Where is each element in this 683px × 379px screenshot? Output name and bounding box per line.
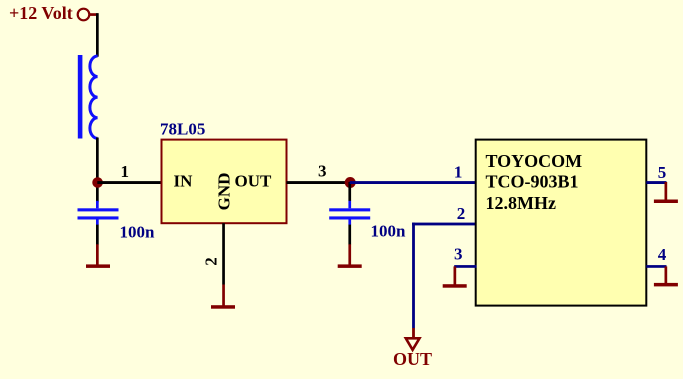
svg-text:1: 1 <box>454 162 463 181</box>
wire node A to U1 IN <box>97 181 162 184</box>
oscillator U2 body <box>476 140 647 306</box>
OUT arrow stub <box>412 328 415 338</box>
wire C2 to ground <box>348 225 351 245</box>
wire inductor to node A <box>96 138 99 203</box>
capacitor C2 bottom plate <box>329 216 370 219</box>
ground G1 <box>96 244 99 265</box>
inductor L1 winding <box>90 56 98 138</box>
svg-text:12.8MHz: 12.8MHz <box>486 193 556 213</box>
capacitor C1 lead stubs <box>96 201 99 209</box>
svg-text:2: 2 <box>202 257 221 266</box>
svg-text:78L05: 78L05 <box>160 119 205 138</box>
svg-text:IN: IN <box>174 172 194 191</box>
ground G4 at U2 pin 3 <box>454 266 457 285</box>
wire node B to C2 <box>348 182 351 201</box>
svg-text:OUT: OUT <box>235 172 273 191</box>
svg-text:+12 Volt: +12 Volt <box>9 3 73 23</box>
svg-text:1: 1 <box>121 162 130 181</box>
capacitor C1 bottom plate <box>78 216 119 219</box>
capacitor C2 lead stubs <box>348 201 351 209</box>
inductor L1 core bar <box>78 55 83 139</box>
svg-text:OUT: OUT <box>393 349 432 369</box>
net wire U2 pin 5 stub <box>646 181 666 184</box>
net wire pin 2 vertical to OUT <box>412 223 415 329</box>
junction node B <box>345 177 356 188</box>
ground G6 at U2 pin 4 <box>665 266 668 285</box>
wire stub from terminal <box>90 13 98 16</box>
svg-text:100n: 100n <box>120 223 156 242</box>
wire terminal to inductor <box>96 13 99 57</box>
svg-text:3: 3 <box>454 244 463 263</box>
OUT arrow head <box>406 338 420 350</box>
svg-text:2: 2 <box>457 204 466 223</box>
junction node A <box>92 177 103 188</box>
net wire U2 pin 3 stub <box>454 265 476 268</box>
svg-text:GND: GND <box>214 173 233 211</box>
wire C1 to ground <box>96 225 99 245</box>
net wire U2 pin 2 horizontal <box>412 223 477 226</box>
svg-text:TOYOCOM: TOYOCOM <box>486 151 583 171</box>
svg-text:TCO-903B1: TCO-903B1 <box>486 172 579 192</box>
wire U1 GND pin down <box>222 223 225 284</box>
supply terminal circle <box>78 9 90 21</box>
ground G3 under C2 <box>348 244 351 265</box>
svg-text:5: 5 <box>658 163 667 182</box>
wire U1 OUT to node B <box>287 181 352 184</box>
capacitor C2 top plate <box>329 208 370 211</box>
net wire U2 pin 4 stub <box>646 265 666 268</box>
ground G2 under U1 <box>222 285 225 308</box>
svg-text:4: 4 <box>658 245 667 264</box>
svg-text:3: 3 <box>318 162 327 181</box>
capacitor C1 top plate <box>78 208 119 211</box>
IC U1 78L05 body <box>162 140 287 224</box>
net wire node B to U2 pin 1 <box>350 181 477 184</box>
svg-text:100n: 100n <box>371 222 407 241</box>
ground G5 at U2 pin 5 <box>665 182 668 201</box>
